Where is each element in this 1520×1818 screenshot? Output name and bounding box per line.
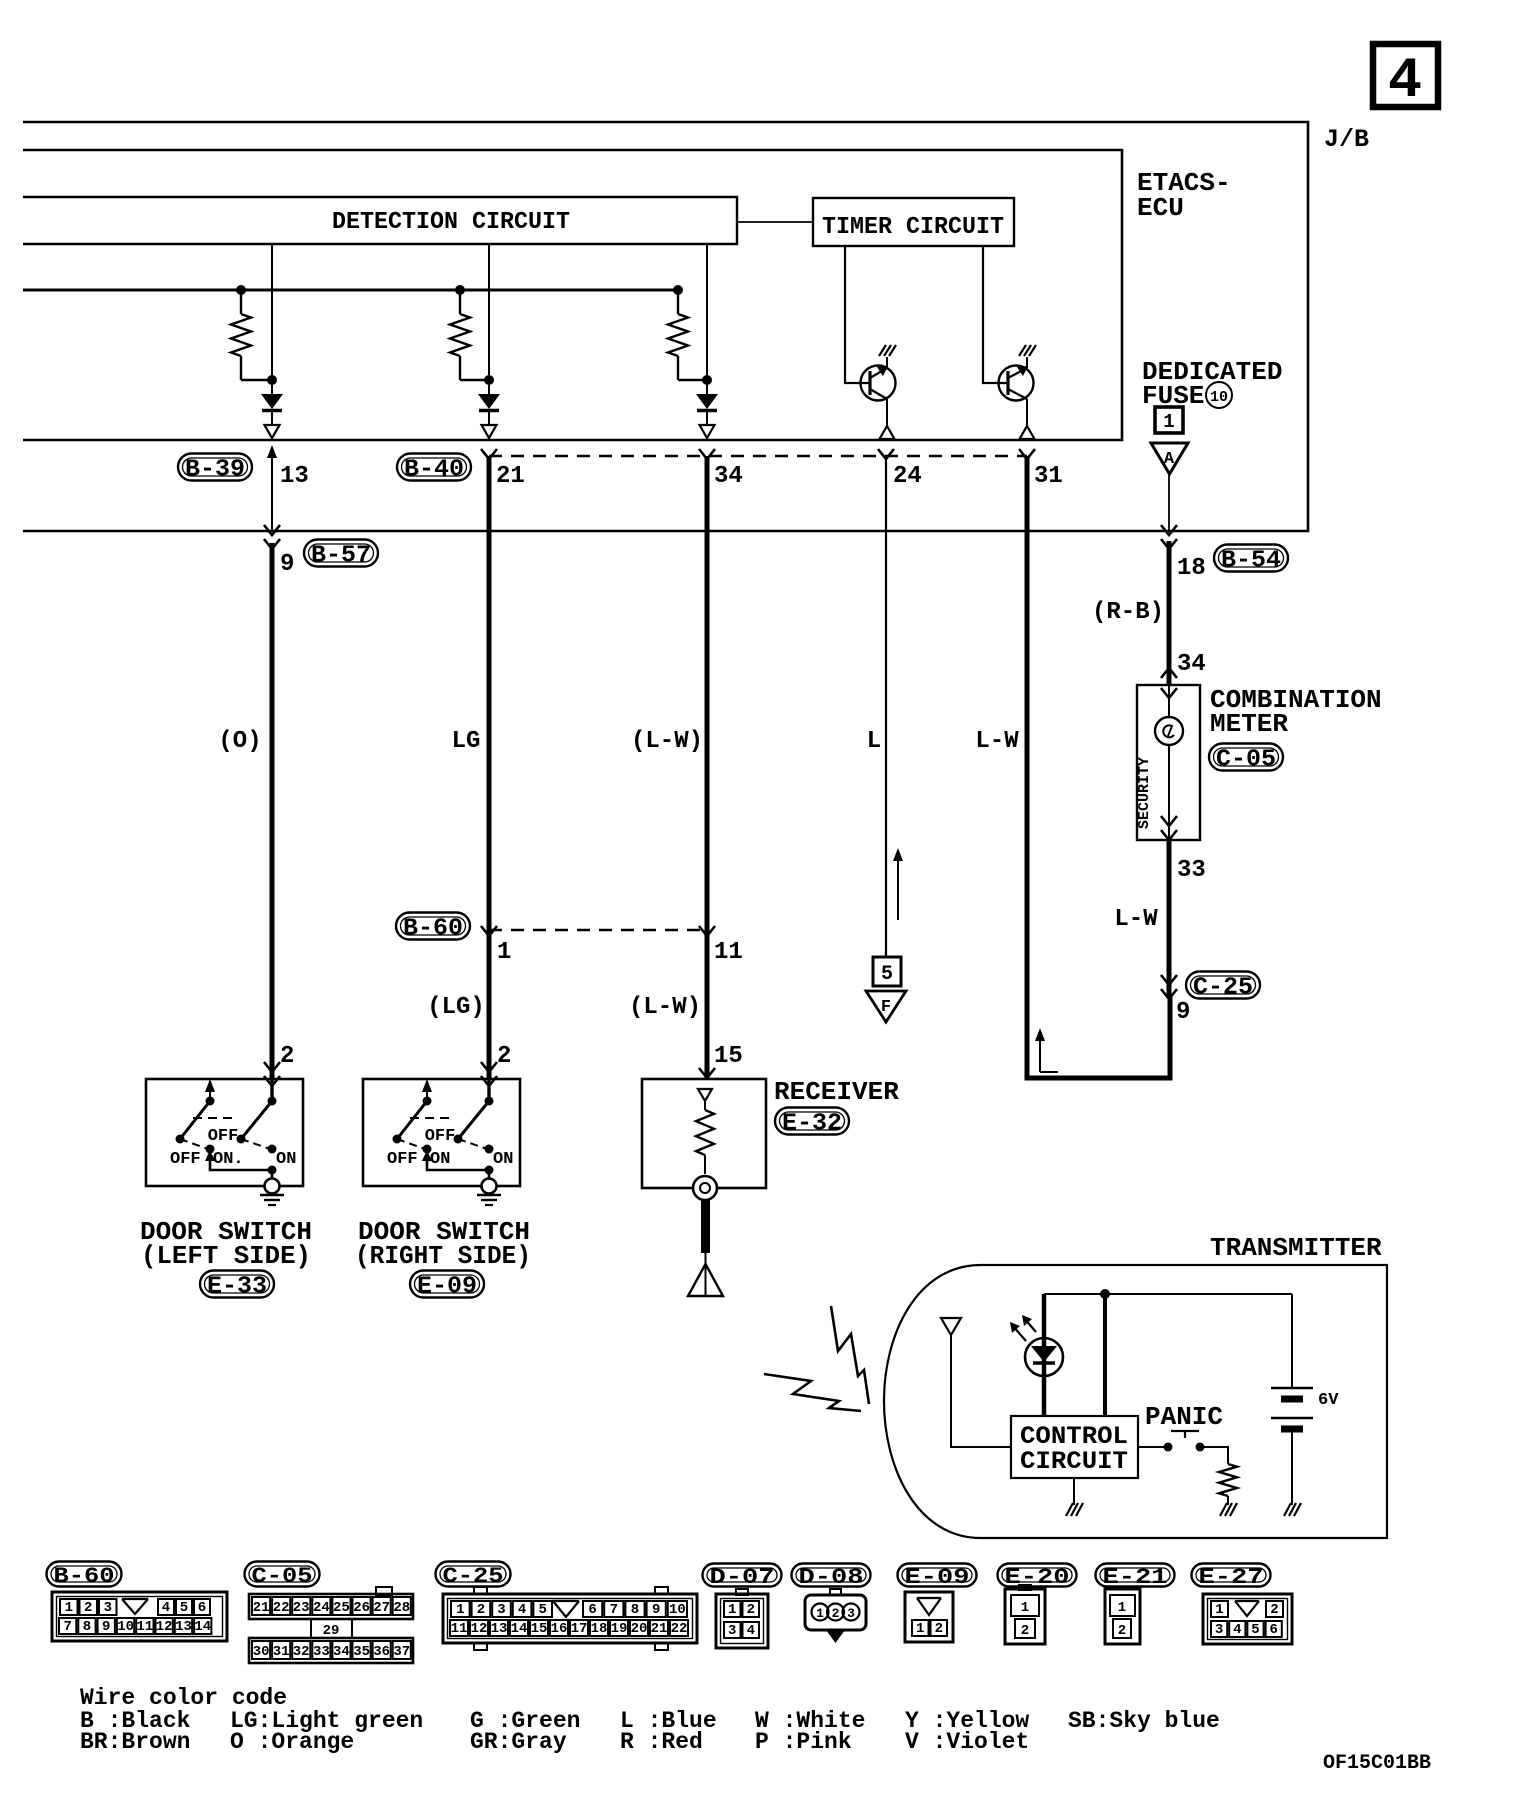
- svg-text:2: 2: [1270, 1602, 1278, 1618]
- svg-text:20: 20: [631, 1621, 648, 1637]
- connector E-21 label: [1096, 1564, 1175, 1590]
- svg-text:(LG): (LG): [427, 994, 485, 1021]
- pin 34: [714, 463, 743, 490]
- svg-text:18: 18: [1177, 555, 1206, 582]
- svg-text:21: 21: [651, 1621, 668, 1637]
- svg-text:9: 9: [1176, 999, 1190, 1026]
- receiver box: [642, 1079, 766, 1188]
- svg-text:2: 2: [477, 1602, 485, 1618]
- svg-text:29: 29: [323, 1623, 340, 1639]
- svg-text:23: 23: [293, 1600, 310, 1616]
- node bus junction 1: [236, 285, 246, 295]
- svg-text:18: 18: [591, 1621, 608, 1637]
- dashed positions: [397, 1118, 487, 1149]
- svg-text:O :Orange: O :Orange: [230, 1729, 354, 1755]
- svg-text:B-40: B-40: [404, 457, 464, 484]
- connector D-08 pinout: [805, 1589, 866, 1643]
- svg-text:3: 3: [847, 1606, 855, 1621]
- svg-text:2: 2: [1118, 1623, 1126, 1639]
- svg-text:8: 8: [631, 1602, 639, 1618]
- svg-text:PANIC: PANIC: [1145, 1402, 1223, 1432]
- node bus junction 3: [673, 285, 683, 295]
- control circuit box: [1011, 1416, 1138, 1478]
- wire Q1 emitter: [886, 399, 888, 426]
- receiver resistor: [696, 1101, 714, 1174]
- svg-text:R :Red: R :Red: [620, 1729, 703, 1755]
- svg-text:SECURITY: SECURITY: [1136, 757, 1153, 829]
- svg-text:5: 5: [538, 1602, 546, 1618]
- svg-text:3: 3: [104, 1600, 112, 1616]
- svg-text:E-09: E-09: [905, 1565, 970, 1590]
- svg-text:A: A: [1164, 450, 1175, 469]
- svg-text:6: 6: [588, 1602, 596, 1618]
- label door switch left: [140, 1217, 312, 1271]
- wire color label (LG): [427, 994, 485, 1021]
- svg-text:OFF: OFF: [425, 1127, 456, 1146]
- svg-text:14: 14: [194, 1619, 211, 1635]
- pin 24: [893, 463, 922, 490]
- svg-text:1: 1: [497, 939, 511, 966]
- svg-text:1: 1: [456, 1602, 464, 1618]
- svg-text:4: 4: [518, 1602, 526, 1618]
- connector E-32: [775, 1108, 849, 1138]
- svg-text:F: F: [881, 998, 891, 1017]
- svg-text:C-25: C-25: [1193, 975, 1253, 1002]
- receiver antenna feed: [701, 1200, 710, 1296]
- svg-text:ON: ON: [493, 1150, 513, 1169]
- wire detection output 2: [488, 244, 490, 394]
- wire (O) door switch left: [270, 543, 275, 1079]
- svg-text:1: 1: [1021, 1600, 1029, 1616]
- wire Q2 emitter: [1026, 399, 1028, 426]
- svg-text:CIRCUIT: CIRCUIT: [1020, 1447, 1128, 1476]
- B-60 crossing pin1: [481, 926, 497, 936]
- resistor R4 panic pull-down: [1219, 1464, 1237, 1505]
- svg-text:TIMER CIRCUIT: TIMER CIRCUIT: [822, 214, 1004, 241]
- page number box 4: [1373, 44, 1438, 114]
- svg-text:22: 22: [273, 1600, 290, 1616]
- node diode junction 2: [484, 375, 494, 385]
- pin 13: [280, 463, 309, 490]
- svg-text:10: 10: [1210, 389, 1228, 406]
- svg-text:2: 2: [747, 1602, 755, 1618]
- receiver antenna input triangle: [698, 1089, 712, 1101]
- svg-text:D-08: D-08: [799, 1565, 864, 1590]
- svg-text:B-54: B-54: [1221, 548, 1281, 575]
- wire color label LG: [452, 728, 481, 755]
- dashed positions: [180, 1118, 270, 1149]
- wire timer-to-Q2 base: [983, 246, 1008, 383]
- svg-text:L-W: L-W: [1114, 906, 1158, 933]
- transmitter top rail: [1044, 1293, 1292, 1295]
- svg-text:ON: ON: [276, 1150, 296, 1169]
- wire inside meter: [1161, 685, 1177, 840]
- connector C-05 meter: [1209, 744, 1283, 774]
- connector E-09 pinout: [905, 1592, 953, 1642]
- svg-text:15: 15: [714, 1043, 743, 1070]
- svg-text:ON.: ON.: [213, 1150, 244, 1169]
- svg-text:10: 10: [669, 1602, 686, 1618]
- svg-text:1: 1: [728, 1602, 736, 1618]
- svg-text:TRANSMITTER: TRANSMITTER: [1210, 1233, 1382, 1263]
- svg-text:13: 13: [491, 1621, 508, 1637]
- battery BT1 6V: [1271, 1294, 1313, 1505]
- connector C-05 pinout: [249, 1587, 413, 1663]
- pin 2 right switch: [497, 1043, 511, 1070]
- contact labels: [170, 1127, 296, 1169]
- wire color label L-W: [975, 728, 1019, 755]
- connector B-57: [304, 540, 378, 570]
- connector E-21 pinout: [1105, 1589, 1140, 1644]
- wire color label (L-W) upper: [631, 728, 703, 755]
- switch pole left: [176, 1079, 216, 1144]
- wire timer-to-Q1 base: [845, 246, 870, 383]
- pin 33: [1177, 857, 1206, 884]
- svg-text:1: 1: [1163, 411, 1174, 433]
- svg-text:12: 12: [471, 1621, 488, 1637]
- svg-text:P :Pink: P :Pink: [755, 1729, 852, 1755]
- svg-text:7: 7: [63, 1619, 71, 1635]
- switch pole left: [393, 1079, 433, 1144]
- svg-text:OFF: OFF: [387, 1150, 418, 1169]
- connector E-27 pinout: [1203, 1594, 1292, 1644]
- pin arrow at ETACS edge 3: [700, 425, 715, 438]
- svg-text:RECEIVER: RECEIVER: [774, 1077, 899, 1107]
- svg-text:14: 14: [511, 1621, 528, 1637]
- transmitter antenna: [941, 1318, 1011, 1447]
- connector E-20 label: [998, 1564, 1077, 1590]
- pin 2 left switch: [280, 1043, 294, 1070]
- radio wave bolt upper: [831, 1306, 869, 1404]
- node bus junction 2: [455, 285, 465, 295]
- node diode junction 3: [702, 375, 712, 385]
- label PANIC: [1145, 1402, 1223, 1432]
- svg-text:L-W: L-W: [975, 728, 1019, 755]
- svg-text:34: 34: [714, 463, 743, 490]
- svg-text:9: 9: [652, 1602, 660, 1618]
- svg-text:35: 35: [353, 1644, 370, 1660]
- svg-text:E-20: E-20: [1005, 1565, 1070, 1590]
- svg-text:1: 1: [816, 1606, 824, 1621]
- svg-text:METER: METER: [1210, 709, 1288, 739]
- resistor R1: [231, 290, 272, 380]
- svg-text:4: 4: [1388, 50, 1422, 114]
- svg-text:ON: ON: [430, 1150, 450, 1169]
- svg-text:(LEFT SIDE): (LEFT SIDE): [141, 1241, 311, 1271]
- svg-text:16: 16: [551, 1621, 568, 1637]
- wire L-W (pin34): [699, 449, 715, 1079]
- ON contacts and wire to ground: [422, 1145, 494, 1180]
- combination meter box: [1137, 685, 1200, 840]
- drawing number OF15C01BB: [1323, 1752, 1431, 1775]
- svg-text:7: 7: [610, 1602, 618, 1618]
- ground panic resistor: [1220, 1503, 1237, 1516]
- svg-text:B-57: B-57: [311, 543, 371, 570]
- svg-text:26: 26: [353, 1600, 370, 1616]
- svg-text:34: 34: [333, 1644, 350, 1660]
- svg-text:33: 33: [1177, 857, 1206, 884]
- switch ground: [477, 1179, 501, 1206]
- svg-text:36: 36: [373, 1644, 390, 1660]
- wire color label L-W lower: [1114, 906, 1158, 933]
- wire color code legend: [80, 1685, 1220, 1755]
- pin 9 meter: [1176, 999, 1190, 1026]
- label TRANSMITTER: [1210, 1233, 1382, 1263]
- label 6V: [1318, 1391, 1339, 1410]
- transistor Q2: [999, 366, 1034, 401]
- svg-text:B-39: B-39: [185, 457, 245, 484]
- svg-text:OF15C01BB: OF15C01BB: [1323, 1752, 1431, 1775]
- wire color label L: [867, 728, 881, 755]
- door switch entry arrows: [481, 1062, 497, 1086]
- svg-text:6: 6: [198, 1600, 206, 1616]
- svg-text:2: 2: [935, 1621, 943, 1637]
- svg-text:2: 2: [84, 1600, 92, 1616]
- connector F triangle: [866, 991, 906, 1022]
- svg-text:5: 5: [881, 963, 893, 986]
- LED emission arrows: [1010, 1315, 1036, 1341]
- wire fuse to J/B edge: [1168, 475, 1170, 531]
- svg-text:L: L: [867, 728, 881, 755]
- resistor R3: [668, 290, 707, 380]
- svg-text:11: 11: [714, 939, 743, 966]
- svg-text:OFF: OFF: [170, 1150, 201, 1169]
- svg-text:D-07: D-07: [710, 1565, 775, 1590]
- connector E-27 label: [1192, 1564, 1271, 1590]
- svg-text:C-05: C-05: [252, 1564, 313, 1589]
- receiver antenna symbol: [688, 1264, 723, 1296]
- ground Q1 collector: [879, 345, 896, 368]
- svg-text:4: 4: [747, 1623, 755, 1639]
- wire detection-to-timer: [737, 221, 813, 223]
- transistor Q1: [861, 366, 896, 401]
- connector C-25: [1186, 972, 1260, 1002]
- panic switch S1: [1138, 1431, 1228, 1464]
- svg-text:6: 6: [1269, 1622, 1277, 1638]
- connector B-54 crossing: [1161, 525, 1177, 549]
- receiver entry arrow: [699, 1068, 715, 1078]
- pin 34 meter: [1177, 651, 1206, 678]
- contact labels: [387, 1127, 513, 1169]
- wire L-W (pin31) long run: [1019, 449, 1170, 1078]
- label COMBINATION METER: [1210, 685, 1382, 739]
- connector C-25 pinout: [443, 1587, 697, 1650]
- svg-text:1: 1: [916, 1621, 924, 1637]
- pin arrow at ETACS edge 1: [265, 425, 280, 438]
- svg-text:4: 4: [1233, 1622, 1241, 1638]
- ETACS-ECU box: [23, 150, 1122, 440]
- svg-text:13: 13: [175, 1619, 192, 1635]
- pin 15 receiver: [714, 1043, 743, 1070]
- door switch box: [363, 1079, 520, 1186]
- pin arrow Q1 emitter: [880, 426, 895, 439]
- wire detection output 1: [271, 244, 273, 394]
- receiver output terminal: [693, 1176, 717, 1200]
- label RECEIVER: [774, 1077, 899, 1107]
- svg-text:9: 9: [102, 1619, 110, 1635]
- svg-text:25: 25: [333, 1600, 350, 1616]
- door switch entry arrows: [264, 1062, 280, 1086]
- svg-text:27: 27: [373, 1600, 390, 1616]
- svg-text:DETECTION CIRCUIT: DETECTION CIRCUIT: [332, 209, 570, 236]
- svg-text:C-05: C-05: [1216, 747, 1276, 774]
- svg-text:(O): (O): [218, 728, 261, 755]
- svg-text:31: 31: [273, 1644, 290, 1660]
- node rail junction: [1100, 1289, 1110, 1299]
- svg-text:E-09: E-09: [417, 1274, 477, 1301]
- svg-text:24: 24: [893, 463, 922, 490]
- security lamp: [1155, 717, 1183, 745]
- transmitter outline: [884, 1265, 1387, 1538]
- svg-text:9: 9: [280, 551, 294, 578]
- wire color label (O): [218, 728, 261, 755]
- detection circuit block: [23, 197, 737, 244]
- wire LED rail to control: [1042, 1294, 1047, 1416]
- svg-text:32: 32: [293, 1644, 310, 1660]
- resistor R2: [450, 290, 489, 380]
- connector B-60 pinout: [52, 1592, 227, 1641]
- svg-text:BR:Brown: BR:Brown: [80, 1729, 190, 1755]
- diode D3: [696, 394, 718, 425]
- svg-text:8: 8: [83, 1619, 91, 1635]
- svg-text:6V: 6V: [1318, 1391, 1339, 1410]
- svg-text:E-27: E-27: [1199, 1565, 1264, 1590]
- connector C-05 label: [245, 1562, 320, 1589]
- svg-text:C-25: C-25: [443, 1564, 504, 1589]
- pin 1: [497, 939, 511, 966]
- svg-text:21: 21: [253, 1600, 270, 1616]
- connector B-40: [397, 454, 471, 484]
- svg-text:11: 11: [136, 1619, 153, 1635]
- svg-text:10: 10: [117, 1619, 134, 1635]
- svg-text:3: 3: [728, 1623, 736, 1639]
- connector C-25 label: [436, 1562, 511, 1589]
- wire color label (R-B): [1092, 599, 1164, 626]
- label DEDICATED FUSE 10: [1142, 357, 1282, 411]
- wire L-W meter to corner: [1167, 840, 1172, 998]
- B-60 crossing pin11: [699, 926, 715, 936]
- switch ground: [260, 1179, 284, 1206]
- connector E-33: [200, 1271, 274, 1301]
- connector B-57 crossing: [264, 525, 280, 549]
- wire pin13 (thin, in J/B): [267, 445, 277, 531]
- svg-text:J/B: J/B: [1324, 125, 1369, 154]
- fuse triangle A: [1151, 443, 1188, 474]
- svg-text:2: 2: [1021, 1623, 1029, 1639]
- LED D4: [1025, 1338, 1063, 1376]
- connector B-39: [178, 454, 252, 484]
- svg-text:4: 4: [162, 1600, 170, 1616]
- svg-text:(RIGHT SIDE): (RIGHT SIDE): [355, 1241, 531, 1271]
- svg-text:(L-W): (L-W): [629, 994, 701, 1021]
- pin 9: [280, 551, 294, 578]
- svg-text:E-32: E-32: [782, 1111, 842, 1138]
- svg-text:ECU: ECU: [1137, 193, 1184, 223]
- ground battery: [1284, 1503, 1301, 1516]
- connector B-60 label: [47, 1562, 122, 1589]
- svg-text:15: 15: [531, 1621, 548, 1637]
- label ETACS-ECU: [1137, 168, 1231, 223]
- connector E-09 capsule: [410, 1271, 484, 1301]
- meter entry arrows: [1161, 668, 1177, 698]
- svg-text:2: 2: [280, 1043, 294, 1070]
- connector D-07 pinout: [716, 1589, 768, 1648]
- switch pole right: [237, 1079, 277, 1144]
- timer circuit block U2: [813, 198, 1014, 246]
- pin arrow Q2 emitter: [1020, 426, 1035, 439]
- svg-text:(R-B): (R-B): [1092, 599, 1164, 626]
- svg-text:28: 28: [393, 1600, 410, 1616]
- wire LG (pin21): [481, 449, 497, 1079]
- wire detection output 3: [706, 244, 708, 394]
- wire L (pin24): [878, 449, 894, 957]
- svg-text:GR:Gray: GR:Gray: [470, 1729, 567, 1755]
- svg-text:30: 30: [253, 1644, 270, 1660]
- connector E-09 label: [898, 1564, 977, 1590]
- pin 21: [496, 463, 525, 490]
- svg-text:5: 5: [180, 1600, 188, 1616]
- diode D1: [261, 394, 283, 425]
- svg-text:2: 2: [497, 1043, 511, 1070]
- svg-text:B-60: B-60: [403, 916, 463, 943]
- svg-text:OFF: OFF: [208, 1127, 239, 1146]
- svg-text:B-60: B-60: [54, 1564, 115, 1589]
- node diode junction 1: [267, 375, 277, 385]
- diode D2: [478, 394, 500, 425]
- label J/B: [1324, 125, 1369, 154]
- svg-text:1: 1: [1118, 1600, 1126, 1616]
- pin arrow at ETACS edge 2: [482, 425, 497, 438]
- connector B-54: [1214, 545, 1288, 575]
- wire color label (L-W) lower: [629, 994, 701, 1021]
- door switch box: [146, 1079, 303, 1186]
- svg-text:E-21: E-21: [1103, 1565, 1168, 1590]
- direction arrow beside wire 24: [893, 848, 903, 920]
- svg-text:LG: LG: [452, 728, 481, 755]
- wire (R-B) fuse to meter: [1167, 541, 1172, 685]
- svg-text:SB:Sky blue: SB:Sky blue: [1068, 1708, 1220, 1734]
- svg-text:33: 33: [313, 1644, 330, 1660]
- svg-text:2: 2: [832, 1606, 840, 1621]
- svg-text:24: 24: [313, 1600, 330, 1616]
- svg-text:11: 11: [451, 1621, 468, 1637]
- connector B-60: [396, 913, 470, 943]
- svg-text:3: 3: [497, 1602, 505, 1618]
- dashed connector line top row: [489, 455, 1027, 457]
- dashed connector line B-60: [489, 929, 707, 931]
- svg-text:13: 13: [280, 463, 309, 490]
- switch pole right: [454, 1079, 494, 1144]
- direction arrow at corner: [1035, 1028, 1058, 1072]
- svg-text:22: 22: [671, 1621, 688, 1637]
- svg-text:E-33: E-33: [207, 1274, 267, 1301]
- inline connector 5: [873, 957, 901, 986]
- connector D-08 label: [792, 1564, 871, 1590]
- pin 11: [714, 939, 743, 966]
- svg-text:1: 1: [65, 1600, 73, 1616]
- svg-text:12: 12: [156, 1619, 173, 1635]
- connector D-07 label: [703, 1564, 782, 1590]
- svg-text:19: 19: [611, 1621, 628, 1637]
- ground Q2 collector: [1019, 345, 1036, 368]
- connector C-25 crossing: [1161, 975, 1177, 999]
- svg-text:17: 17: [571, 1621, 588, 1637]
- label SECURITY vertical: [1136, 757, 1153, 829]
- pin 31: [1034, 463, 1063, 490]
- radio wave bolt lower: [764, 1374, 861, 1411]
- J/B junction block box: [23, 122, 1308, 531]
- svg-text:21: 21: [496, 463, 525, 490]
